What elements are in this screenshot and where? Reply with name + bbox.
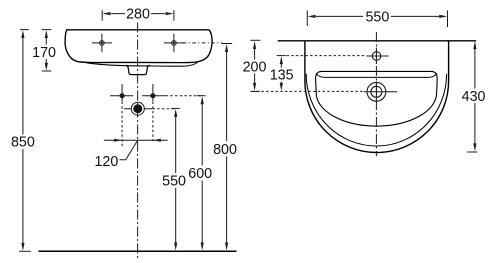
svg-text:200: 200 xyxy=(243,60,267,76)
fixing hole left xyxy=(110,84,133,101)
svg-text:550: 550 xyxy=(365,10,389,26)
hidden line drain level xyxy=(153,108,176,110)
dimension 800 front xyxy=(222,44,232,251)
faucet hole top view xyxy=(366,48,388,65)
hidden line tap level to 800 xyxy=(183,42,222,44)
faucet hidden line xyxy=(287,55,367,57)
dimension 600 front xyxy=(197,96,206,251)
drain hidden line xyxy=(252,90,364,92)
hidden line dots level xyxy=(166,95,203,97)
drain trap xyxy=(126,65,150,74)
svg-text:550: 550 xyxy=(162,173,186,189)
floor line xyxy=(38,250,236,252)
svg-text:800: 800 xyxy=(213,142,237,158)
svg-text:430: 430 xyxy=(462,89,486,105)
dimension 120 xyxy=(104,139,168,160)
top view inner rim xyxy=(306,74,446,146)
top view outer outline xyxy=(305,41,449,153)
tap hole left xyxy=(92,34,112,52)
dimension 280 xyxy=(102,10,174,21)
drain top view xyxy=(364,82,398,104)
dimension 135 xyxy=(277,56,286,91)
dimension 170 xyxy=(42,30,52,71)
dimension 550 top xyxy=(307,11,447,28)
svg-text:135: 135 xyxy=(270,68,294,84)
dimension 850 xyxy=(19,30,31,252)
top view center line xyxy=(375,32,377,156)
hidden line left fixing vertical xyxy=(121,102,123,148)
basin front bottom back edge xyxy=(86,62,198,66)
drain hole front xyxy=(124,102,152,115)
dimension 200 xyxy=(250,40,260,91)
basin front outline xyxy=(65,30,212,63)
svg-text:170: 170 xyxy=(32,45,56,61)
dimension 430 xyxy=(467,41,477,152)
tap hole right xyxy=(164,34,184,52)
svg-text:120: 120 xyxy=(94,154,118,170)
front center line xyxy=(137,23,139,260)
top view bowl xyxy=(316,71,438,126)
svg-text:280: 280 xyxy=(126,6,150,22)
fixing hole right xyxy=(142,84,165,101)
svg-text:850: 850 xyxy=(11,134,35,150)
svg-text:600: 600 xyxy=(188,166,212,182)
top view back wall line xyxy=(278,40,477,42)
hidden line right fixing vertical xyxy=(152,102,154,142)
top view bowl lip xyxy=(316,73,437,77)
dimension 550 front xyxy=(171,108,180,250)
